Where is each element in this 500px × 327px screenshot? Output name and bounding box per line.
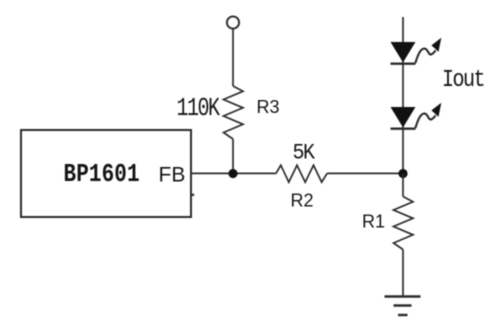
op-amp/IC box U1 BP1601 xyxy=(21,130,191,217)
wire: R2 to LED node xyxy=(327,172,403,174)
wire: R1 to ground xyxy=(402,250,404,297)
svg-text:FB: FB xyxy=(159,164,186,187)
wire: terminal to R3 xyxy=(232,29,234,87)
ground xyxy=(385,297,421,316)
wire: LED string vertical xyxy=(402,17,404,173)
terminal circle (R3 top input) xyxy=(227,16,239,28)
svg-text:Iout: Iout xyxy=(442,66,484,93)
svg-text:R1: R1 xyxy=(362,212,385,232)
resistor R3 xyxy=(224,86,244,139)
LED D2 xyxy=(391,103,442,129)
svg-text:110K: 110K xyxy=(177,94,221,123)
svg-text:5K: 5K xyxy=(293,141,316,166)
wire: R3 to FB node xyxy=(232,139,234,173)
svg-text:BP1601: BP1601 xyxy=(64,161,140,189)
wire: FB pin to R2 xyxy=(191,172,276,174)
resistor R2 xyxy=(276,165,327,182)
svg-text:R2: R2 xyxy=(291,191,314,211)
node LED cathode / R1 junction xyxy=(398,169,407,178)
node FB junction xyxy=(228,169,237,178)
pin stub on box right edge xyxy=(191,194,194,196)
wire: node to R1 xyxy=(402,173,404,196)
svg-text:R3: R3 xyxy=(257,97,280,117)
resistor R1 xyxy=(394,197,414,250)
LED D1 xyxy=(391,38,442,64)
